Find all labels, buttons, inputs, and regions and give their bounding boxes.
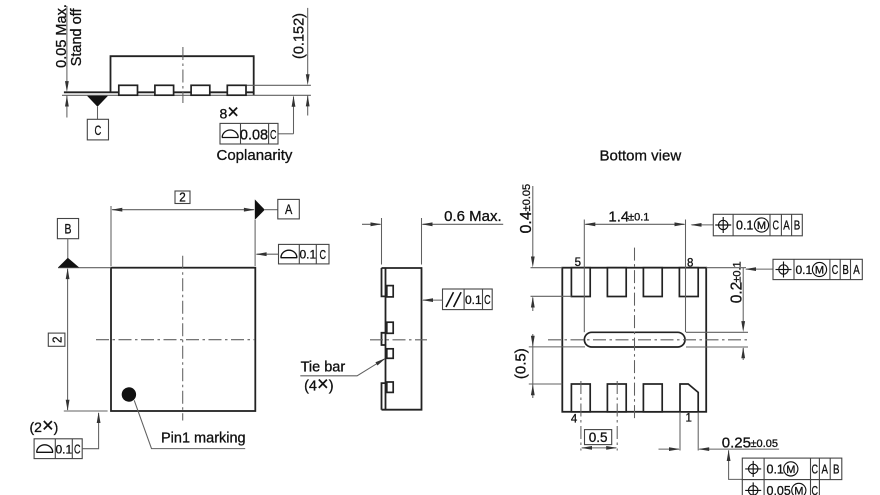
svg-text:B: B	[842, 262, 849, 277]
package body outline	[111, 56, 254, 95]
0.2 extension lines right	[706, 267, 746, 269]
pad 2	[643, 384, 662, 412]
boxed 2 vertical	[48, 333, 65, 346]
svg-text:C: C	[270, 127, 277, 142]
svg-text:2: 2	[49, 336, 64, 343]
svg-text:B: B	[65, 222, 72, 237]
body bottom line	[64, 91, 254, 93]
0.25 dimension line	[659, 448, 680, 450]
svg-text:Stand off: Stand off	[69, 8, 85, 67]
svg-text:A: A	[822, 462, 829, 477]
svg-text:0.1: 0.1	[767, 462, 784, 476]
svg-text:2: 2	[179, 190, 186, 205]
svg-text:C: C	[484, 292, 491, 307]
body left outer segments	[382, 268, 386, 296]
profile frame bottom-left leader	[82, 413, 98, 449]
svg-text:±0.1: ±0.1	[731, 261, 743, 282]
tie bar tab 4	[387, 382, 393, 392]
svg-text:±0.05: ±0.05	[751, 438, 778, 450]
svg-text:0.1: 0.1	[299, 248, 316, 262]
pad 4	[571, 384, 590, 412]
svg-text:(0.152): (0.152)	[292, 13, 308, 59]
pad 1 with chamfer	[680, 384, 698, 412]
(0.152) dimension	[307, 8, 309, 77]
position frame 1	[713, 214, 802, 236]
tie bar leader	[300, 359, 384, 376]
svg-text:Coplanarity: Coplanarity	[217, 147, 293, 164]
svg-text:0.25: 0.25	[722, 435, 751, 452]
svg-text:A: A	[285, 202, 292, 217]
svg-text:8×: 8×	[220, 102, 239, 124]
0.5 dimension line	[582, 447, 616, 449]
horizontal centerline	[96, 339, 255, 341]
svg-text:1.4: 1.4	[608, 208, 629, 225]
body left inner line	[385, 268, 387, 410]
svg-text:0.1: 0.1	[796, 263, 813, 277]
body outline	[382, 268, 422, 410]
svg-text:A: A	[783, 218, 790, 233]
vertical centerline	[182, 256, 184, 421]
tie bar tab 3	[387, 349, 393, 359]
boxed 0.5 label	[585, 430, 612, 445]
svg-text:1: 1	[685, 413, 691, 425]
pad 7	[643, 268, 662, 297]
center thermal pad	[584, 332, 685, 347]
0.6 dimension line	[362, 223, 381, 225]
0.4 extension lines left	[531, 267, 563, 269]
svg-text:0.1: 0.1	[55, 442, 72, 456]
datum B box	[57, 219, 78, 239]
svg-text:0.5: 0.5	[589, 430, 608, 445]
svg-text:(0.5): (0.5)	[512, 348, 529, 379]
pad 4 centerline	[580, 381, 582, 451]
datum B triangle	[58, 258, 79, 268]
svg-text:0.05 Max.: 0.05 Max.	[54, 4, 70, 68]
1.4 extension line left (through pad 5)	[583, 220, 585, 333]
right edge extension above	[254, 220, 256, 266]
svg-text:C: C	[95, 122, 102, 138]
svg-text:B: B	[794, 218, 801, 233]
pad 5	[571, 268, 590, 297]
profile frame bottom-left	[34, 439, 82, 459]
svg-text:C: C	[832, 262, 839, 277]
svg-text:C: C	[812, 462, 819, 477]
vertical centerline	[634, 248, 636, 420]
svg-text:C: C	[319, 247, 326, 262]
profile frame leader	[257, 253, 279, 255]
svg-text:±0.1: ±0.1	[628, 212, 649, 224]
tie bar tab 2	[387, 322, 393, 333]
(0.5) extension lines left	[529, 346, 585, 348]
datum C box	[87, 119, 108, 140]
tie bar tab 1	[387, 286, 393, 297]
parallelism leader	[423, 299, 443, 301]
vertical centerline	[182, 47, 184, 103]
1.4 extension line right (through pad 8)	[685, 220, 687, 333]
coplanarity leader arrow	[293, 97, 295, 134]
svg-text:Pin1 marking: Pin1 marking	[161, 431, 246, 447]
horizontal centerline	[370, 339, 427, 341]
package outline square	[562, 268, 706, 412]
0.4 dimension line	[532, 186, 534, 260]
datum C leader	[97, 107, 99, 120]
pad 6	[607, 268, 626, 297]
horizontal dimension 2 line	[112, 209, 254, 211]
seating plane line	[62, 94, 311, 96]
profile frame top-right	[279, 244, 330, 264]
parallelism frame	[443, 289, 493, 310]
pad 8	[679, 268, 698, 297]
svg-text:0.4: 0.4	[518, 211, 535, 233]
1.4 dimension line	[585, 223, 684, 225]
left edge extension above	[110, 206, 112, 266]
svg-text:0.1: 0.1	[736, 218, 753, 232]
svg-text:0.1: 0.1	[465, 293, 482, 307]
leader to composite frame	[729, 450, 743, 479]
svg-text:A: A	[853, 262, 860, 277]
0.2 dimension line	[742, 268, 744, 327]
frame1 leader	[692, 224, 714, 226]
0.6 extension lines	[381, 218, 383, 265]
vertical dimension 2 line	[67, 269, 69, 410]
svg-text:4: 4	[571, 413, 578, 425]
svg-text:5: 5	[575, 257, 581, 269]
datum A box	[278, 199, 300, 219]
svg-text:C: C	[812, 483, 819, 495]
svg-text:0.08: 0.08	[240, 127, 268, 143]
pad 3 centerline	[616, 381, 618, 451]
datum A leader	[265, 209, 278, 211]
svg-text:B: B	[833, 462, 840, 477]
datum A triangle	[255, 199, 265, 220]
svg-text:0.05: 0.05	[767, 484, 791, 495]
boxed 2 horizontal	[175, 191, 190, 204]
pin1 marking leader	[134, 400, 245, 448]
horizontal centerline over pad	[548, 339, 747, 341]
(0.5) dimension line	[532, 334, 534, 398]
svg-text:(2×): (2×)	[30, 415, 59, 437]
svg-text:8: 8	[687, 258, 693, 270]
0.05 standoff dimension line	[66, 6, 68, 84]
svg-text:0.6 Max.: 0.6 Max.	[444, 208, 502, 225]
lead 2	[155, 85, 174, 95]
position frame 3 (row 1)	[742, 458, 842, 480]
0.25 extension lines	[679, 413, 681, 451]
position frame 4 (row 2)	[742, 480, 819, 495]
bottom edge extension line to left	[64, 410, 108, 412]
package outline square	[111, 268, 255, 411]
coplanarity feature control frame	[220, 123, 278, 144]
svg-text:C: C	[74, 442, 81, 457]
svg-text:Bottom view: Bottom view	[600, 148, 682, 165]
svg-text:C: C	[772, 218, 779, 233]
top edge extension line to left	[58, 267, 111, 269]
frame2 leader	[746, 268, 773, 270]
lead 1	[119, 85, 138, 95]
lead 4	[227, 85, 246, 95]
lead 3	[191, 85, 210, 95]
datum C triangle	[87, 96, 108, 107]
lead-top extension line right	[246, 84, 311, 86]
pin1 marking dot	[122, 387, 136, 401]
svg-text:±0.05: ±0.05	[521, 184, 533, 211]
datum B leader	[67, 239, 69, 259]
position frame 2	[773, 259, 862, 279]
pad 3	[607, 384, 626, 412]
svg-text:0.2: 0.2	[728, 282, 745, 304]
